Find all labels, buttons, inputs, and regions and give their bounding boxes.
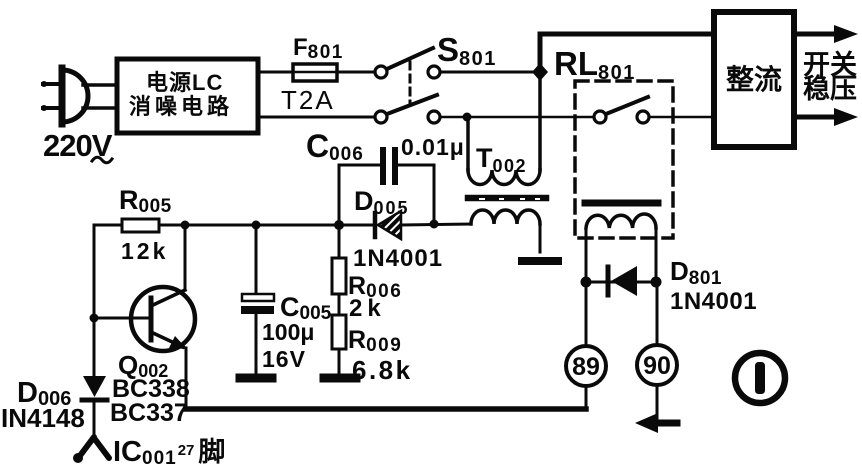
wire terminal 90 down: [656, 385, 659, 420]
wire C005 to ground: [255, 314, 258, 374]
output arrow bottom: [794, 108, 858, 126]
wire to terminal 89: [585, 282, 588, 346]
wire switch pole2 to relay contact: [440, 116, 594, 119]
relay contact: [594, 97, 649, 123]
R006 branch wire: [338, 225, 341, 258]
node base: [90, 314, 99, 323]
terminal 89: [566, 346, 606, 386]
transformer T002 primary: [468, 76, 540, 185]
wire D005 to T002 secondary: [401, 224, 471, 225]
rectifier box 整流: [714, 12, 794, 147]
junction node (diamond): [532, 63, 548, 81]
label 开关稳压: [803, 50, 857, 104]
bottom bus wire: [186, 406, 586, 412]
node collector: [181, 221, 190, 230]
node (relay right / D801): [651, 277, 662, 288]
ground (R009): [324, 374, 356, 383]
node R006/C006: [334, 220, 344, 230]
LC filter box 电源LC消噪电路: [117, 59, 258, 133]
relay coil core: [585, 200, 658, 207]
svg-text:IN4148: IN4148: [1, 403, 85, 433]
relay coil: [586, 214, 656, 282]
wire to terminal 90: [656, 282, 659, 345]
wire LC box to switch pole 2: [258, 116, 375, 119]
terminal 90: [637, 345, 677, 385]
svg-text:电源LC: 电源LC: [146, 70, 223, 95]
left branch wire: [93, 225, 96, 377]
svg-text:整流: 整流: [726, 64, 782, 95]
crow's foot to IC001: [73, 437, 109, 463]
transistor Q002: [96, 225, 195, 409]
ground (T002 secondary): [522, 257, 558, 265]
label 220V: [43, 128, 113, 163]
power plug P1 (220V mains): [41, 68, 88, 124]
svg-text:220V: 220V: [43, 128, 113, 163]
svg-text:16V: 16V: [262, 346, 306, 372]
wire D801 row: [586, 281, 656, 284]
switch S801 pole 2: [375, 95, 440, 123]
wire R009 to ground: [338, 349, 341, 374]
node (relay left / D801): [581, 277, 592, 288]
wire LC box to fuse: [258, 71, 290, 74]
svg-text:1N4001: 1N4001: [353, 245, 443, 272]
relay RL801 dashed box: [575, 81, 673, 238]
fuse F801: [288, 64, 343, 81]
capacitor C006: [383, 150, 395, 182]
resistor R005: [122, 219, 159, 232]
wire plug to LC box (bottom): [83, 106, 117, 110]
output arrow top: [794, 25, 858, 43]
ground (C005): [240, 374, 272, 383]
chassis arrow under 90: [635, 413, 677, 433]
svg-text:T2A: T2A: [281, 85, 335, 115]
resistor R009: [332, 315, 346, 349]
top bus wire to rectifier: [540, 34, 714, 70]
switch linkage (dashed): [409, 62, 412, 105]
circled 1 mark: [735, 353, 785, 403]
svg-text:89: 89: [572, 353, 600, 381]
svg-text:稳压: 稳压: [803, 73, 857, 104]
svg-text:12k: 12k: [121, 238, 168, 264]
node C005: [252, 221, 261, 230]
wire main row: [159, 224, 375, 227]
switch S801 pole 1: [375, 48, 440, 78]
svg-text:1N4001: 1N4001: [670, 288, 757, 315]
wire terminal 89 to bottom bus: [585, 386, 588, 409]
junction node B: [463, 113, 472, 122]
T002 core: [468, 198, 546, 199]
wire R006 to R009: [338, 294, 341, 315]
resistor R006: [332, 258, 346, 294]
wire fuse to switch: [343, 71, 375, 74]
transformer T002 secondary: [471, 210, 540, 252]
C006 branch wires: [339, 165, 434, 225]
diode D005 (hatched): [375, 211, 401, 239]
svg-text:BC337: BC337: [110, 399, 188, 427]
svg-text:100μ: 100μ: [262, 319, 314, 345]
wire relay contact to rectifier: [649, 116, 714, 119]
svg-text:90: 90: [643, 352, 671, 380]
diode D006: [82, 376, 107, 400]
wire switch pole1 to junction: [440, 71, 540, 74]
capacitor C005 (electrolytic): [241, 294, 274, 314]
svg-text:2k: 2k: [349, 295, 386, 322]
node C006 right: [430, 220, 439, 229]
wire plug to LC box (top): [83, 83, 117, 87]
wire main row left: [94, 224, 122, 227]
wire D006 down: [93, 400, 96, 440]
svg-text:6.8k: 6.8k: [352, 355, 413, 385]
diode D801: [608, 266, 637, 296]
svg-text:0.01μ: 0.01μ: [401, 134, 465, 160]
svg-text:消噪电路: 消噪电路: [129, 94, 233, 119]
C005 branch wire: [255, 225, 258, 294]
